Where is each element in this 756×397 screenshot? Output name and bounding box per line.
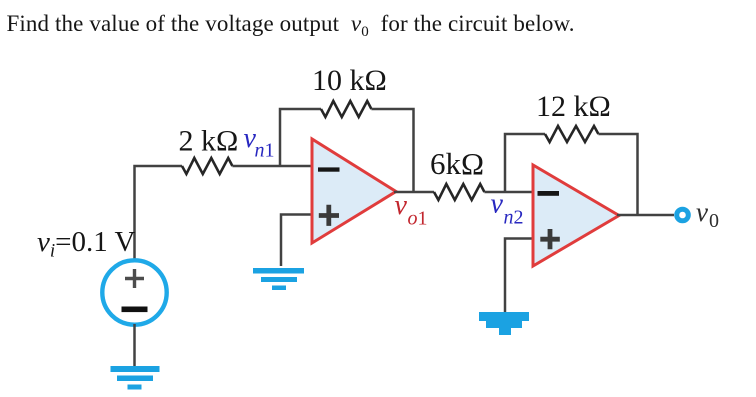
svg-text:v: v [395, 190, 408, 221]
svg-text:Find the value of the voltage: Find the value of the voltage output v0 … [7, 11, 575, 40]
svg-text:v: v [491, 189, 504, 220]
wire: feedback top right and right vertical down to U2 output [598, 134, 637, 215]
wire: U1 output to 6k resistor [394, 191, 434, 194]
voltage source minus sign [122, 307, 148, 313]
op-amp U1 [312, 139, 396, 243]
op-amp U2 [533, 165, 619, 266]
wire: U2 output to terminal [617, 214, 674, 217]
ground: below U1 plus input [253, 268, 304, 290]
svg-text:v: v [696, 197, 708, 227]
terminal v0 [677, 209, 689, 221]
voltage source Vi circle [102, 260, 166, 324]
wire: U2 plus input from ground [505, 239, 533, 313]
wire: 2k resistor to op-amp U1 minus input (node Vn1) [232, 165, 312, 168]
wire: feedback left vertical at Vn1 [280, 109, 321, 166]
wire: U1 plus input from ground [281, 215, 312, 267]
svg-text:0: 0 [709, 210, 719, 232]
svg-text:n2: n2 [504, 207, 524, 229]
resistor R2 10 kOhm zigzag [321, 101, 371, 117]
resistor R3 6 kOhm zigzag [434, 184, 484, 200]
ground: below source [111, 366, 160, 390]
ground: chassis style below U2 plus input [479, 312, 529, 335]
svg-text:2 kΩ: 2 kΩ [179, 125, 239, 158]
wire: source bottom to ground [133, 324, 136, 366]
wire: feedback left vertical at Vn2 [505, 134, 545, 192]
svg-text:o1: o1 [408, 208, 428, 230]
svg-text:vi=0.1 V: vi=0.1 V [37, 226, 135, 262]
wire: source top to 2k resistor [135, 166, 183, 260]
resistor R4 12 kOhm zigzag [545, 126, 598, 142]
svg-text:10 kΩ: 10 kΩ [312, 64, 387, 97]
wire: feedback top right and right vertical down to U1 output [371, 109, 413, 192]
svg-text:6kΩ: 6kΩ [430, 146, 484, 181]
svg-text:12 kΩ: 12 kΩ [536, 90, 611, 123]
svg-text:n1: n1 [255, 140, 275, 162]
resistor R1 2 kOhm zigzag [182, 158, 232, 174]
wire: 6k resistor to U2 minus input (node Vn2) [484, 191, 533, 194]
voltage source plus sign [125, 269, 144, 288]
